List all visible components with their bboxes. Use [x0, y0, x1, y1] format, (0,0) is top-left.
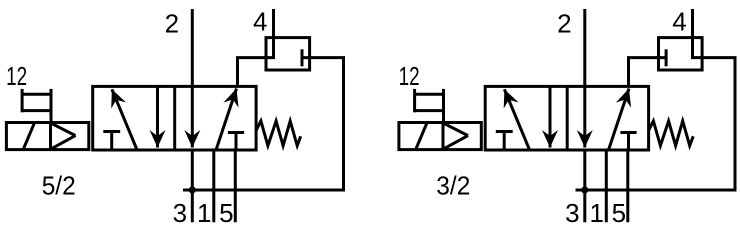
blocked port T right cell V1: [228, 133, 244, 151]
flow arrow 1-4 right cell V2: [609, 86, 637, 150]
svg-text:5/2: 5/2: [42, 171, 76, 201]
blocked port in pilot box V2: [665, 49, 668, 66]
port 2 line V1: [191, 9, 194, 86]
svg-text:12: 12: [399, 61, 420, 91]
svg-text:4: 4: [253, 7, 267, 37]
flow arrow 1-4 right cell V1: [216, 86, 244, 150]
port 1 line V1: [212, 150, 215, 222]
svg-text:12: 12: [6, 61, 27, 91]
flow arrow up-left left cell V2: [497, 86, 530, 150]
flow arrow down left cell V2: [542, 86, 558, 147]
blocked port T left cell V2: [496, 132, 513, 151]
blocked port T right cell V2: [620, 133, 636, 151]
label 5/2 V1: [42, 171, 76, 201]
svg-text:4: 4: [672, 7, 686, 37]
label 3 V2: [565, 198, 579, 228]
label 3 V1: [173, 198, 187, 228]
pilot port 12 symbol V1: [22, 89, 51, 123]
port 5 line V1: [234, 150, 237, 222]
label 12 V1: [6, 61, 27, 91]
svg-text:5: 5: [612, 198, 626, 228]
pilot exhaust line to port 3 V1: [183, 58, 344, 190]
label 3/2 V2: [436, 171, 470, 201]
valve body V2: [485, 86, 648, 150]
pilot box V2: [659, 38, 703, 70]
pilot triangle V1: [51, 123, 76, 150]
port 4 line V2: [576, 9, 736, 190]
pilot line to valve top V2: [629, 58, 667, 87]
label 2 V1: [165, 9, 179, 39]
label 1 V1: [197, 198, 211, 228]
valve body V1: [93, 86, 256, 150]
port 3 line V2: [583, 150, 586, 222]
port 3 line V1: [191, 150, 194, 222]
pilot box V1: [266, 38, 310, 70]
svg-text:3: 3: [565, 198, 579, 228]
pilot triangle V2: [443, 123, 468, 150]
flow arrow up-left left cell V1: [105, 86, 138, 150]
svg-text:3/2: 3/2: [436, 171, 470, 201]
junction dot port 3 V1: [189, 186, 196, 193]
port 4 line V1: [238, 9, 274, 86]
label 1 V2: [589, 198, 603, 228]
svg-text:3: 3: [173, 198, 187, 228]
flow arrow down left cell V1: [150, 86, 166, 147]
label 4 V2: [672, 7, 686, 37]
flow arrow 2-3 right cell V1: [184, 86, 200, 147]
svg-text:5: 5: [219, 198, 233, 228]
port 1 line V2: [605, 150, 608, 222]
solenoid V2: [399, 123, 481, 151]
svg-text:2: 2: [165, 9, 179, 39]
label 5 V1: [219, 198, 233, 228]
solenoid V1: [6, 123, 88, 151]
return spring V1: [256, 121, 301, 146]
blocked port in pilot box V1: [301, 49, 304, 66]
svg-text:1: 1: [197, 198, 211, 228]
svg-text:2: 2: [557, 9, 571, 39]
label 12 V2: [399, 61, 420, 91]
svg-text:1: 1: [589, 198, 603, 228]
junction dot port 3 V2: [581, 186, 588, 193]
port 2 line V2: [583, 9, 586, 86]
blocked port T left cell V1: [103, 132, 120, 151]
label 2 V2: [557, 9, 571, 39]
pilot port 12 symbol V2: [415, 89, 444, 123]
label 4 V1: [253, 7, 267, 37]
port 5 line V2: [626, 150, 629, 222]
label 5 V2: [612, 198, 626, 228]
flow arrow 2-3 right cell V2: [577, 86, 593, 147]
return spring V2: [649, 121, 694, 146]
